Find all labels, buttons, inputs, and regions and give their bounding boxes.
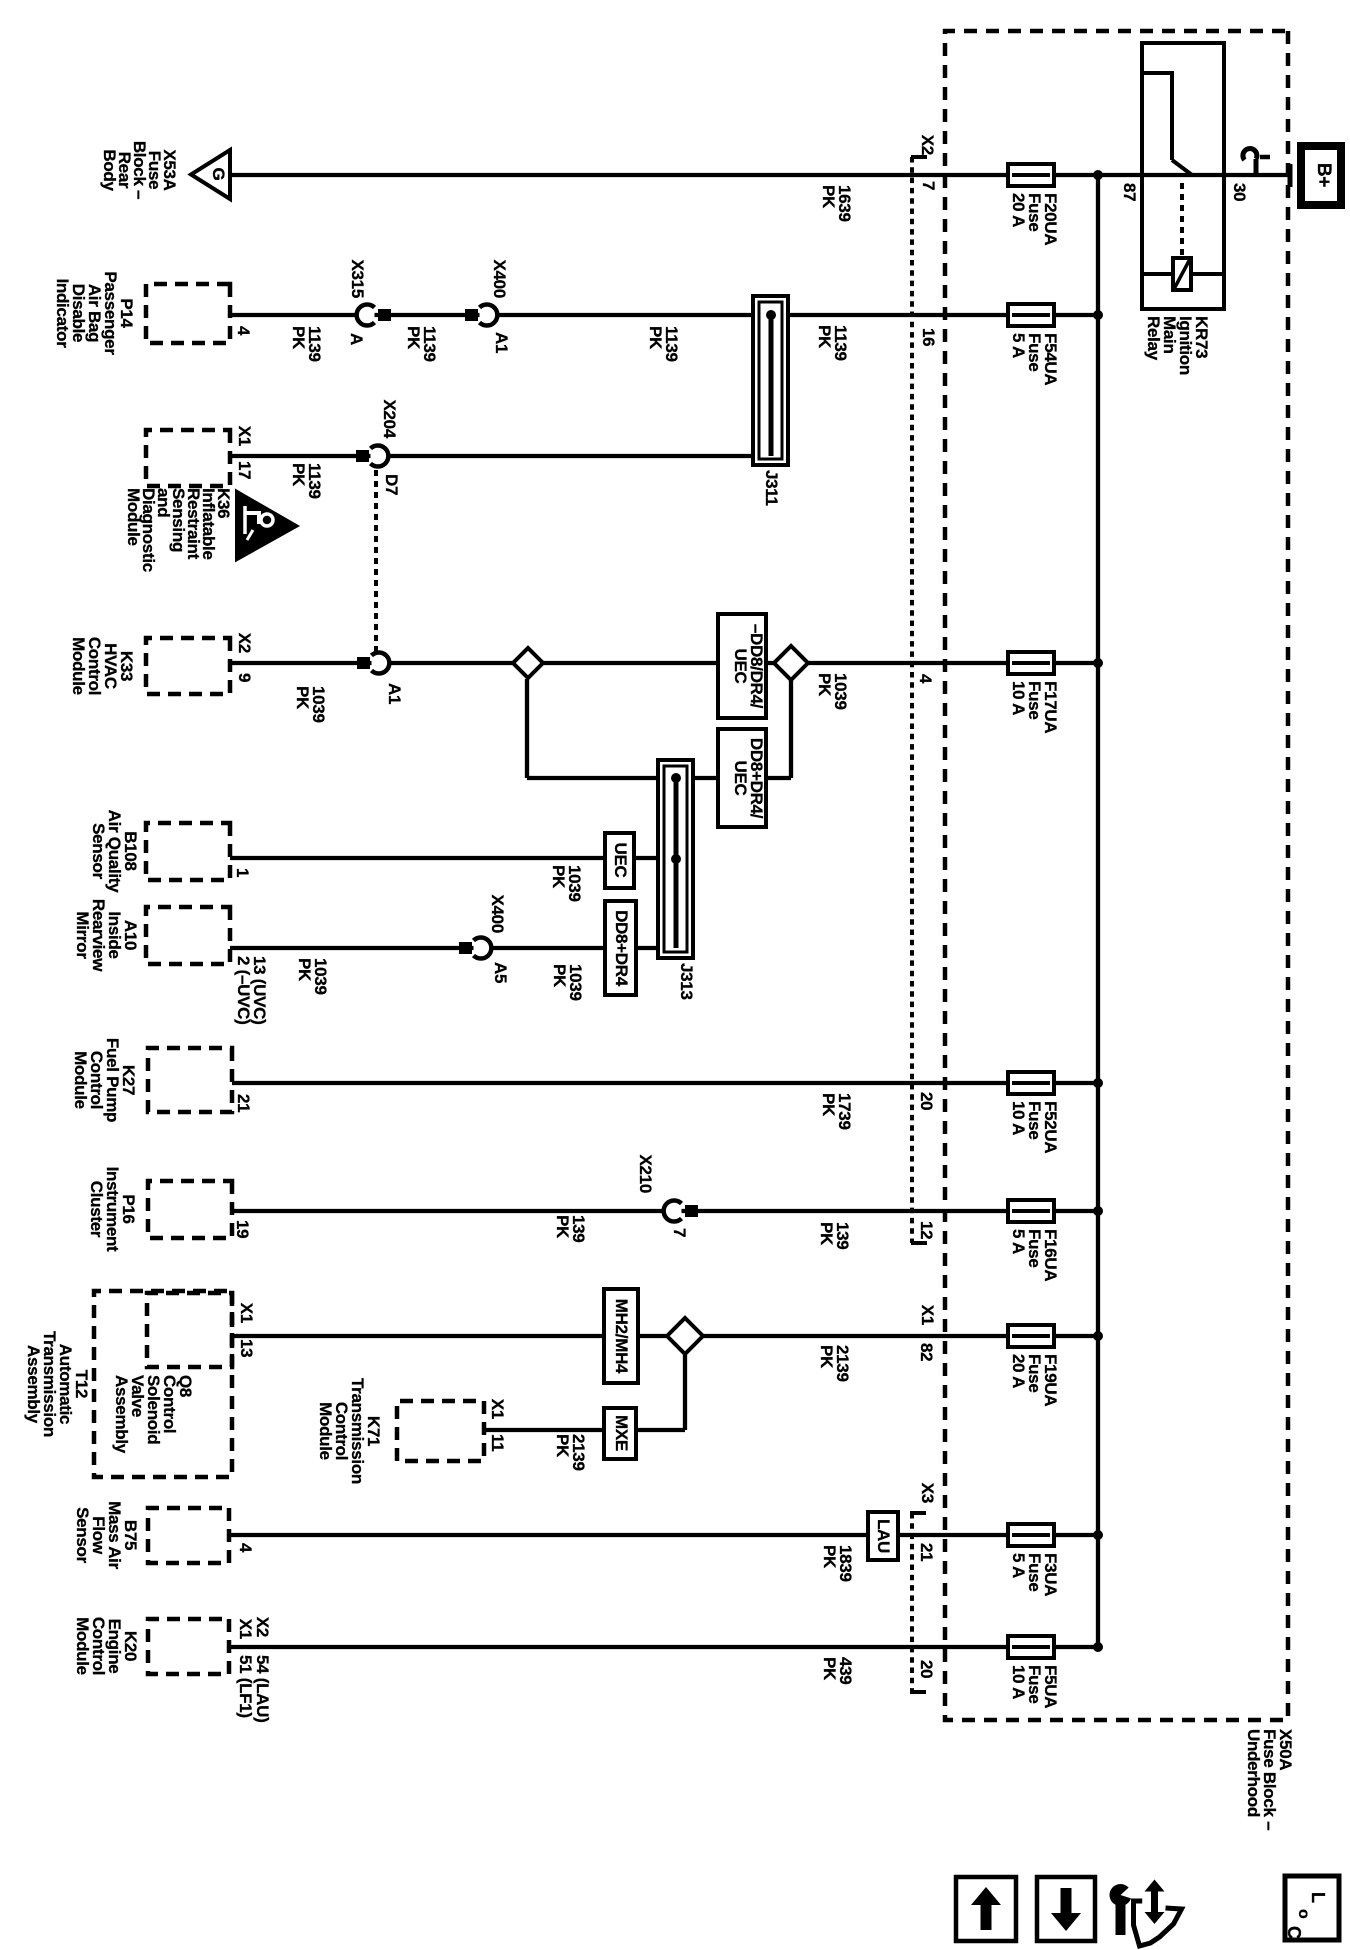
wire label 139 PK F16UA xyxy=(818,1222,850,1249)
connector X2 face end tick left xyxy=(911,155,927,159)
termination triangle G X53A xyxy=(191,150,230,199)
connector X1 label xyxy=(919,1305,935,1325)
pin 1 B108 xyxy=(234,868,250,877)
junction on bus x=315 xyxy=(1093,310,1103,320)
fuse block X50A outline xyxy=(945,31,1288,1720)
wire label 1139 PK K36 xyxy=(290,463,322,499)
relay KR73 outline xyxy=(1142,43,1224,309)
option box DD8+DR4/UEC xyxy=(718,729,766,827)
fusible link curl xyxy=(1243,149,1257,160)
inline connector X400 cavity A5 arc xyxy=(474,938,492,959)
junction on bus x=175 xyxy=(1093,170,1103,180)
label J313 xyxy=(678,963,694,1000)
wire label 1139 PK F54UA xyxy=(816,325,848,361)
wire label 1039 PK A10 lower xyxy=(296,958,328,995)
splice diamond lower K33 branch xyxy=(513,648,543,678)
wire label 1039 PK K33 xyxy=(294,686,326,723)
pin 2 -UVC A10 xyxy=(235,956,251,1024)
relay coil diagonal xyxy=(1174,259,1190,289)
label X50A Fuse Block Underhood xyxy=(1245,1729,1293,1830)
wire label 1639 PK xyxy=(820,185,852,222)
pin X2 K33 xyxy=(236,633,252,653)
splice pack J311 bus bar xyxy=(769,313,774,456)
dashed connector link X204 D7-A1 xyxy=(374,470,378,651)
wire label 2139 PK F19UA xyxy=(818,1345,850,1382)
battery feed B+ xyxy=(1301,146,1341,205)
pin 13 Q8 xyxy=(238,1339,254,1357)
junction on bus x=1083 xyxy=(1093,1078,1103,1088)
connector box P14 xyxy=(146,284,230,343)
label X400 xyxy=(491,259,507,298)
splice pack J313 outer xyxy=(658,760,693,958)
fuse F20UA xyxy=(1008,164,1054,186)
relay coil lead upper xyxy=(1191,272,1222,276)
fusible link symbol stem xyxy=(1254,159,1259,175)
label cavity 7 xyxy=(671,1228,687,1237)
label X210 xyxy=(637,1154,653,1193)
wire circuit 1139 to K36 xyxy=(230,454,771,458)
pin 4 P14 xyxy=(235,326,251,335)
label K20 xyxy=(74,1617,138,1675)
connector X3 face end tick right xyxy=(910,1690,926,1694)
junction on bus x=1211 xyxy=(1093,1206,1103,1216)
wire fused feed bus xyxy=(1096,175,1100,1647)
inline connector X210 cavity 7 square xyxy=(685,1205,698,1217)
relay pin 30 xyxy=(1231,183,1247,201)
label J311 xyxy=(763,470,779,506)
splice diamond upper K33 branch xyxy=(774,646,808,680)
relay switch arm xyxy=(1172,160,1192,175)
label B108 xyxy=(90,810,138,893)
wire circuit 1739 to K27 xyxy=(232,1081,1098,1085)
connector X3 label xyxy=(919,1483,935,1503)
pin 21 xyxy=(918,1543,934,1561)
wire label 1139 PK upper P14 xyxy=(647,326,679,362)
fuse F16UA xyxy=(1008,1200,1054,1222)
label P16 xyxy=(88,1167,136,1252)
connector box P16 xyxy=(148,1181,232,1238)
wire label 2139 PK K71 xyxy=(554,1434,586,1471)
relay actuating dashed link xyxy=(1180,183,1184,257)
splice diamond T12 branch xyxy=(667,1318,703,1354)
pin X1 K36 xyxy=(236,426,252,446)
wire label 439 PK xyxy=(821,1657,853,1684)
inline connector X315 cavity A arc xyxy=(357,304,375,325)
pin 4 B75 xyxy=(237,1543,253,1552)
connector X3 face end tick left xyxy=(910,1511,926,1515)
wire circuit 1139 to P14 xyxy=(230,313,1098,317)
wire terminal tick at block boundary xyxy=(1288,164,1293,187)
label T12 xyxy=(25,1331,89,1437)
relay fixed contact 87 path xyxy=(1142,73,1172,160)
inline connector X400 cavity A1 arc xyxy=(480,304,498,325)
icon LOC page marker xyxy=(1285,1876,1339,1940)
pin 21 K27 xyxy=(235,1094,251,1112)
wire label 1039 PK B108 xyxy=(550,865,582,902)
label K36 xyxy=(126,488,231,572)
option box LAU xyxy=(868,1512,898,1560)
inline connector X210 cavity 7 arc xyxy=(664,1201,682,1222)
wire label 1839 PK xyxy=(821,1545,853,1582)
junction on bus x=1336 xyxy=(1093,1331,1103,1341)
connector box K36 xyxy=(146,430,230,486)
option box DD8+DR4 xyxy=(605,901,636,995)
junction J313 bar 2 xyxy=(671,854,681,864)
wire circuit 1839 to B75 xyxy=(229,1533,1098,1537)
connector X2 label xyxy=(919,135,935,155)
fuse F54UA xyxy=(1008,304,1054,326)
fuse F5UA xyxy=(1008,1636,1054,1658)
pin 51 LF1 K20 xyxy=(237,1655,253,1718)
connector X2 face end tick right xyxy=(911,1241,927,1245)
fuse F19UA xyxy=(1008,1325,1054,1347)
wire B+ feed / circuit 1639 down to G xyxy=(230,173,1292,177)
SRS airbag warning triangle xyxy=(237,492,296,559)
relay coil lead lower xyxy=(1144,272,1173,276)
wire splice branch upper xyxy=(789,681,793,778)
label A10 xyxy=(74,899,138,971)
pin 9 K33 xyxy=(236,673,252,682)
wire branch to MXE xyxy=(683,1355,687,1430)
wire label 139 PK P16 xyxy=(554,1215,586,1242)
label cavity A5 xyxy=(492,962,508,983)
option box -DD8/DR4/UEC xyxy=(718,614,766,718)
inline connector X315 cavity A square xyxy=(378,309,391,321)
option box MH2/MH4 xyxy=(604,1289,638,1383)
connector box K20 xyxy=(148,1619,229,1674)
wire circuit 2139 to Q8/T12 xyxy=(232,1334,1098,1338)
label X315 xyxy=(349,259,365,298)
connector box K33 xyxy=(146,638,230,694)
assembly box T12 xyxy=(94,1291,232,1477)
component box Q8 xyxy=(147,1293,232,1367)
label K33 xyxy=(70,637,134,695)
option box UEC xyxy=(605,833,634,888)
pin 54 LAU K20 xyxy=(254,1655,270,1723)
pin 7 xyxy=(920,181,936,190)
fuse F17UA xyxy=(1008,652,1054,674)
wire option branch DD8 xyxy=(527,776,791,780)
label K71 xyxy=(317,1378,381,1484)
wire label 1739 PK xyxy=(820,1093,852,1130)
junction on bus x=1535 xyxy=(1093,1530,1103,1540)
connector X2 face dashed line xyxy=(910,157,914,1243)
wire splice branch lower xyxy=(525,679,529,778)
pin 16 xyxy=(920,328,936,346)
wire circuit 1039 to A10 xyxy=(230,946,675,950)
wire circuit 2139 to K71 xyxy=(484,1428,685,1432)
pin 82 xyxy=(918,1343,934,1361)
relay pin 87 xyxy=(1121,183,1137,201)
connector box B108 xyxy=(146,823,230,880)
icon page-up button xyxy=(956,1877,1016,1941)
wire circuit 1039 to B108 xyxy=(230,856,674,860)
connector box A10 xyxy=(146,907,230,964)
splice pack J313 inner xyxy=(664,766,687,952)
wire circuit 1039 to K33 xyxy=(230,661,1098,665)
pin X2 K20 xyxy=(254,1617,270,1637)
wire label 1139 PK lower P14 xyxy=(290,326,322,362)
wire label 1039 PK F17UA xyxy=(816,673,848,710)
junction on bus x=1647 xyxy=(1093,1642,1103,1652)
pin 12 xyxy=(918,1221,934,1239)
option box MXE xyxy=(604,1408,636,1459)
label X53A Fuse Block Rear Body xyxy=(102,141,177,199)
junction J311 bar xyxy=(766,310,776,320)
label X204 xyxy=(381,399,397,438)
label P14 xyxy=(54,271,134,354)
pin 20 K27 xyxy=(918,1092,934,1110)
pin X1 K20 xyxy=(237,1619,253,1639)
label K27 xyxy=(72,1038,136,1122)
wire circuit 139 to P16 xyxy=(232,1209,1098,1213)
relay KR73 label xyxy=(1145,316,1209,375)
pin X1 Q8 xyxy=(238,1303,254,1323)
relay coil box xyxy=(1173,258,1191,290)
connector box B75 xyxy=(148,1508,229,1563)
label B75 xyxy=(74,1501,138,1569)
pin 4 xyxy=(917,674,933,683)
splice pack J311 inner xyxy=(759,302,782,459)
label Q8 xyxy=(113,1375,193,1453)
label cavity D7 xyxy=(383,474,399,495)
connector box K27 xyxy=(148,1048,232,1112)
pin 20 K20 xyxy=(918,1660,934,1678)
wire circuit 439 to K20 xyxy=(229,1645,1098,1649)
inline connector X204 cavity D7 arc xyxy=(371,446,389,467)
connector box K71 xyxy=(397,1401,484,1461)
pin X1 K71 xyxy=(489,1399,505,1419)
fusible link tick xyxy=(1260,155,1270,160)
pin 11 K71 xyxy=(489,1434,505,1451)
icon page-down button xyxy=(1037,1877,1095,1941)
connector X3 face dashed line xyxy=(910,1513,914,1692)
inline connector X204 cavity A1 K33 arc xyxy=(372,653,390,674)
pin 13 UVC A10 xyxy=(251,956,267,1024)
splice pack J311 outer xyxy=(753,296,788,465)
label X400 A5 xyxy=(489,894,505,933)
splice pack J313 bus bar xyxy=(674,776,679,948)
wire label 1039 PK A10 upper xyxy=(551,964,583,1001)
junction J313 bar 1 xyxy=(671,773,681,783)
label cavity A1 K33 xyxy=(386,683,402,704)
icon service tools xyxy=(1109,1879,1181,1946)
pin 19 P16 xyxy=(234,1220,250,1238)
wire label 1139 PK mid P14 xyxy=(405,326,437,362)
fuse F3UA xyxy=(1008,1524,1054,1546)
junction on bus x=663 xyxy=(1093,658,1103,668)
pin 17 K36 xyxy=(236,461,252,479)
label cavity A xyxy=(348,333,364,345)
fuse F52UA xyxy=(1008,1072,1054,1094)
B+ label xyxy=(1315,163,1331,187)
label cavity A1 xyxy=(493,332,509,353)
